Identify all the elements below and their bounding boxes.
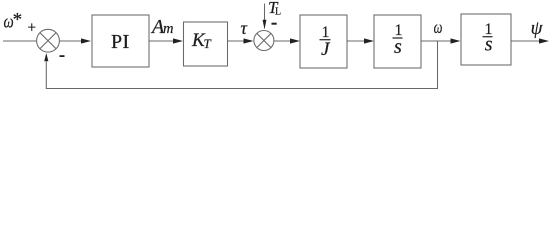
svg-text:τ: τ — [241, 18, 248, 38]
svg-text:+: + — [27, 19, 36, 36]
svg-text:*: * — [13, 9, 23, 30]
svg-text:s: s — [394, 36, 402, 58]
svg-text:I: I — [122, 31, 129, 53]
svg-text:P: P — [111, 31, 122, 53]
svg-text:m: m — [163, 21, 173, 37]
svg-text:ψ: ψ — [531, 18, 544, 39]
svg-text:L: L — [275, 7, 281, 18]
svg-text:T: T — [204, 36, 212, 51]
svg-text:ω: ω — [434, 17, 443, 37]
svg-text:s: s — [485, 34, 493, 56]
